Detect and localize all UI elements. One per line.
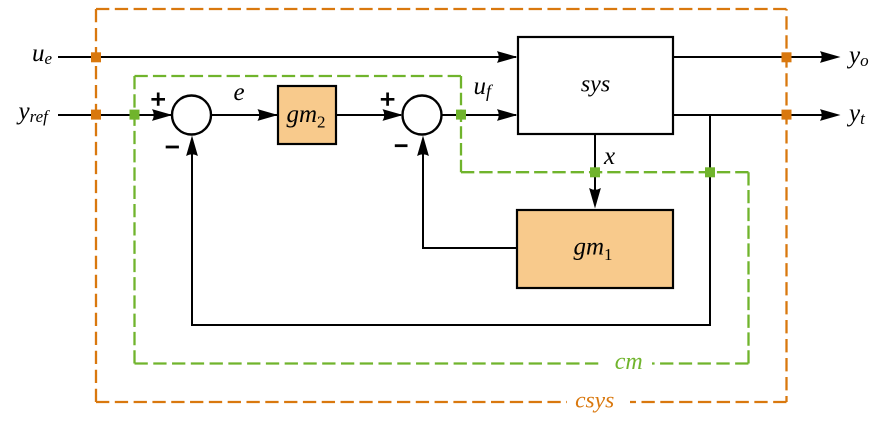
csys boundary (orange dashed rectangle) (96, 9, 787, 402)
minus sign at summer 1 (166, 146, 179, 149)
block gm1 (517, 210, 673, 288)
wire u_f: summer 2 to sys (442, 114, 517, 116)
svg-text:e: e (234, 79, 245, 106)
wire gm2 to summer 2 (336, 114, 401, 116)
wire gm1 output to summer 2 (inner feedback) (423, 139, 517, 248)
wire y_t branch to summer 1 (outer feedback) (192, 114, 710, 325)
node square: csys crossing on y_t (782, 110, 792, 120)
node square: cm crossing on x (590, 167, 600, 177)
label gap on csys bottom edge (567, 393, 630, 411)
node square: cm crossing on y_ref (130, 110, 140, 120)
node square: csys crossing on y_ref (91, 110, 101, 120)
arrowhead into sys (u_e) (497, 51, 518, 63)
plus sign at summer 2 (381, 93, 395, 106)
wire u_e input to sys (58, 56, 516, 58)
arrowhead into gm1 (x) (589, 188, 601, 209)
wire y_ref input to summer 1 (58, 114, 171, 116)
arrowhead output y_o (820, 51, 841, 63)
wire sys to y_t output (673, 114, 828, 116)
node square: csys crossing on u_e (91, 52, 101, 62)
svg-text:sys: sys (581, 72, 610, 98)
plus sign at summer 1 (151, 93, 165, 106)
svg-text:csys: csys (575, 388, 614, 414)
cm boundary (green dashed polygon with notch) (135, 76, 749, 364)
wire e: summer 1 to gm2 (211, 114, 277, 116)
node square: csys crossing on y_o (782, 52, 792, 62)
arrowhead into sys (u_f) (497, 109, 518, 121)
arrowhead into summer 2 bottom (417, 136, 429, 157)
label gap on cm bottom edge (603, 355, 652, 372)
block sys (518, 37, 673, 134)
node square: cm crossing on u_f (456, 110, 466, 120)
block gm2 (278, 86, 336, 144)
node square: cm crossing on feedback (705, 167, 715, 177)
summer 1 (summing junction circle) (172, 96, 211, 135)
arrowhead into summer 1 bottom (186, 136, 198, 157)
minus sign at summer 2 (395, 144, 408, 147)
arrowhead into gm2 (258, 109, 279, 121)
wire sys to y_o output (673, 56, 828, 58)
arrowhead into summer 1 (152, 109, 173, 121)
summer 2 (summing junction circle) (403, 96, 442, 135)
wire x: sys bottom to gm1 top (594, 134, 596, 196)
svg-text:cm: cm (615, 349, 643, 375)
arrowhead output y_t (820, 109, 841, 121)
svg-text:x: x (603, 143, 615, 170)
arrowhead into summer 2 (383, 109, 404, 121)
